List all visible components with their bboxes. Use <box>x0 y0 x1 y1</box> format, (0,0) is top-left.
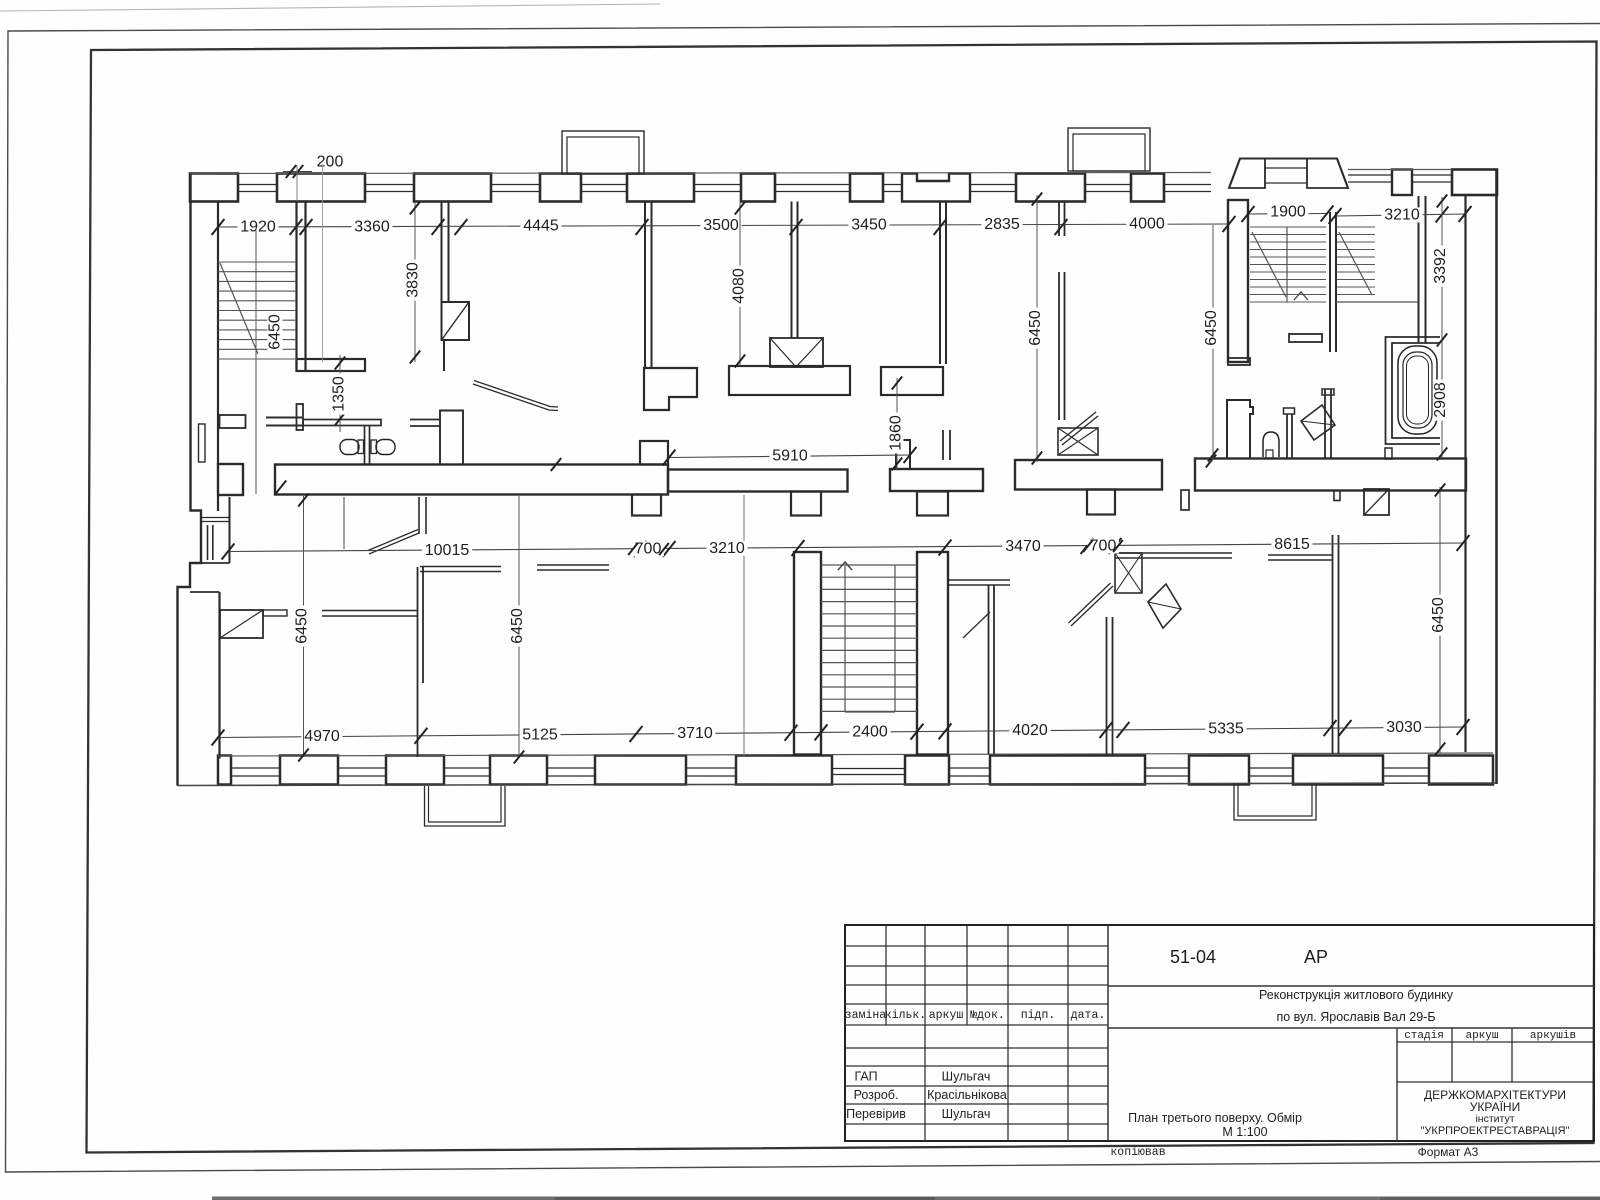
door swing big room (double diagonal) <box>473 384 558 411</box>
right stair treads flight2 <box>1336 226 1375 228</box>
corridor chunk C up-notch <box>896 440 910 469</box>
bottom wall top edge <box>218 753 1493 756</box>
dim 4000 <box>1126 216 1167 231</box>
vdim 4080 <box>731 266 748 307</box>
vdim 6450 rm line <box>1212 225 1214 460</box>
vdim 6450 bl ticks <box>298 494 308 507</box>
dim row1 tick x642 <box>636 219 649 235</box>
dim 3710 <box>674 726 715 741</box>
WC left <box>340 440 359 455</box>
svg-text:Формат А3: Формат А3 <box>1418 1145 1479 1159</box>
vdim 6450 bl <box>294 606 311 647</box>
vdim 6450 bl line <box>303 496 305 757</box>
right stair landing line <box>1336 301 1418 303</box>
room wall x645 (vertical double) <box>644 202 646 369</box>
dim row1 line <box>218 224 1229 227</box>
svg-text:Красільнікова: Красільнікова <box>927 1088 1007 1102</box>
bottom wall window 4 <box>547 767 595 769</box>
corridor chunk D down-notch <box>1087 490 1115 515</box>
svg-text:УКРАЇНИ: УКРАЇНИ <box>1470 1100 1520 1114</box>
svg-text:аркуш: аркуш <box>1465 1030 1498 1042</box>
title table vline x967 <box>966 925 968 1025</box>
title table vline x1068 <box>1067 925 1069 1025</box>
svg-text:№док.: №док. <box>970 1009 1005 1022</box>
dim 3500 <box>700 218 741 233</box>
svg-text:1900: 1900 <box>1270 204 1306 221</box>
svg-text:заміна: заміна <box>845 1009 887 1022</box>
top wall pier 8 <box>1016 174 1085 202</box>
bottom wall entrance threshold <box>832 768 905 770</box>
WC partition 1 <box>1286 414 1288 459</box>
left stair diagonal <box>220 263 258 354</box>
top wall right of bay: window a <box>1348 174 1392 176</box>
wall below flue x441 <box>443 340 445 371</box>
svg-text:5910: 5910 <box>772 448 808 465</box>
bottom wall window 9 <box>1383 767 1429 769</box>
svg-text:4000: 4000 <box>1129 216 1165 233</box>
top wall outer edge line <box>190 173 1211 174</box>
dim row3 tick x636 <box>630 726 643 742</box>
porch right (double line) <box>1234 783 1316 820</box>
door swing bottom mid <box>1071 586 1113 626</box>
corridor wall chunk C <box>890 469 983 491</box>
dim row3 tick x421 <box>415 728 428 744</box>
bottom wall pier 4 <box>490 756 547 785</box>
svg-text:1860: 1860 <box>888 415 905 451</box>
light partition line x744 <box>743 495 745 757</box>
WC right stair <box>1263 432 1279 457</box>
right stairwell right wall <box>1418 196 1420 343</box>
title table hline y1048 <box>845 1047 1108 1049</box>
partition L bottom x990 <box>948 579 1010 581</box>
svg-text:інститут: інститут <box>1475 1113 1514 1125</box>
title table vline x925 <box>924 925 926 1025</box>
svg-text:підп.: підп. <box>1021 1009 1056 1022</box>
svg-text:3470: 3470 <box>1005 538 1041 555</box>
dim row1 tick x306 <box>300 219 313 235</box>
mid stair right wall stub <box>917 492 948 516</box>
vdim 6450 rm ticks <box>1208 449 1218 462</box>
dim row2 tick x1087 <box>1081 538 1094 554</box>
vdim 6450 stair line <box>255 227 257 494</box>
partition x1061 (vertical double) <box>1058 272 1060 420</box>
svg-text:Реконструкція житлового будинк: Реконструкція житлового будинку <box>1259 988 1454 1002</box>
bottom wall pier 6 <box>736 756 832 785</box>
svg-text:51-04: 51-04 <box>1170 947 1216 967</box>
toilet room top wall <box>266 417 302 419</box>
title table hline y1004 <box>845 1003 1108 1005</box>
svg-text:6450: 6450 <box>1430 597 1447 633</box>
top wall window 1 <box>238 184 277 186</box>
dim row2 tick x640 <box>634 541 647 557</box>
svg-text:Шульгач: Шульгач <box>942 1070 991 1084</box>
dim 8615 <box>1271 537 1312 552</box>
stair bay pier right <box>1307 159 1348 189</box>
toilet wall T-stub <box>297 404 304 430</box>
top wall window b <box>1412 174 1452 176</box>
dim row3 tick x1106 <box>1100 722 1113 738</box>
bottom wall pier 5 <box>595 756 686 785</box>
dim row1 tick x218 <box>212 219 225 235</box>
dim 200 ext line <box>296 165 298 201</box>
corridor lower partition a <box>420 566 501 568</box>
wall stair landing bottom <box>297 359 366 371</box>
bathroom niche walls <box>1392 343 1440 438</box>
vdim 1350 line <box>339 355 341 432</box>
dim 3210r ticks <box>1329 208 1342 224</box>
dim 5335 <box>1205 721 1246 736</box>
toilet wall mid <box>303 420 381 426</box>
vdim 3830 line <box>414 203 416 362</box>
flue box x441 <box>442 302 470 340</box>
top wall window 3 <box>491 184 540 186</box>
scanner band darker segment <box>555 1197 935 1200</box>
dim row1 tick x438 <box>432 219 445 235</box>
stub wall above corridor x943 <box>942 430 944 460</box>
dim 5125 <box>519 727 560 742</box>
dim row1 tick x1061 <box>1055 219 1068 235</box>
mid stair landing bottom <box>845 711 895 713</box>
flue bowtie x791 <box>770 338 823 367</box>
mid stair rail right <box>894 565 896 712</box>
svg-text:3710: 3710 <box>677 725 713 742</box>
entrance threshold <box>202 517 229 519</box>
dim 3450 <box>848 217 889 232</box>
dim 3360 <box>351 219 392 234</box>
dim row2 tick x228 <box>222 544 235 560</box>
vdim 6450 stair <box>267 312 284 353</box>
corridor band A corner tick <box>276 481 286 494</box>
top wall window 8 <box>970 184 1016 186</box>
top wall pier 9 <box>1131 174 1164 202</box>
right stair treads flight1 <box>1250 226 1326 228</box>
dim 2835 <box>981 217 1022 232</box>
top wall pier 1 <box>190 174 238 202</box>
dim 4970 <box>301 729 342 744</box>
right stair divider 2 <box>1335 212 1337 352</box>
top wall edge right section <box>1348 169 1452 171</box>
toilet wall right segment <box>410 419 440 421</box>
title table vline x886 <box>885 925 887 1025</box>
title table hline y1086 <box>845 1085 1108 1087</box>
door stub below pier x1061 <box>1058 202 1060 237</box>
dim 3210 <box>706 541 747 556</box>
toilet wall left chunk <box>220 415 246 428</box>
mid stair left wall stub <box>791 492 821 516</box>
WC partition 2 <box>1324 389 1326 459</box>
svg-text:6450: 6450 <box>267 314 284 350</box>
vdim 2908 ticks <box>1437 448 1447 461</box>
svg-text:Шульгач: Шульгач <box>942 1107 991 1121</box>
svg-text:3500: 3500 <box>703 217 739 234</box>
partition bottom-left vertical <box>417 567 419 757</box>
bathtub <box>1398 346 1437 434</box>
toilet partition mid (between WCs) <box>364 426 366 464</box>
dim 3210r line <box>1335 214 1465 216</box>
svg-text:аркуш: аркуш <box>929 1009 964 1022</box>
стадія hline <box>1397 1041 1594 1043</box>
mid stair right wall <box>917 552 948 755</box>
svg-text:2400: 2400 <box>852 724 888 741</box>
vdim 3392 <box>1432 246 1449 287</box>
vdim 2908 <box>1432 380 1449 421</box>
mid stair left wall <box>794 552 821 755</box>
vdim 1350 ticks <box>335 357 345 370</box>
title table vline low x1068 <box>1067 1025 1069 1141</box>
svg-text:4970: 4970 <box>304 728 340 745</box>
diamond flue bottom mid <box>1148 584 1181 628</box>
partition bottom-right vertical <box>1332 535 1334 754</box>
title table vline x1108 <box>1107 925 1109 1141</box>
corridor lower partition b <box>537 564 609 566</box>
dim 200 ext line b <box>322 164 324 362</box>
corridor door swing <box>369 533 419 554</box>
dim 1900 ticks <box>1242 206 1255 222</box>
bay window 2 (double outline) <box>1068 128 1150 171</box>
right section wall below stair <box>1227 400 1253 459</box>
corridor wall right stub <box>1334 491 1340 501</box>
dim row3 tick x1330 <box>1324 720 1337 736</box>
dim 3470 <box>1002 539 1043 554</box>
radiator left wall (rect+diagonal) <box>220 610 263 638</box>
dim row1 tick x296 <box>290 219 303 235</box>
left exterior wall outer <box>178 174 202 786</box>
mid stair treads <box>821 564 917 566</box>
right stair diagonal left <box>1252 232 1286 297</box>
svg-text:"УКРПРОЕКТРЕСТАВРАЦІЯ": "УКРПРОЕКТРЕСТАВРАЦІЯ" <box>1421 1125 1570 1137</box>
vdim 6450 br line <box>1439 487 1441 753</box>
bottom wall pier 9 <box>1189 756 1249 785</box>
dim 5910 <box>769 448 810 463</box>
corridor wall left chunk <box>218 464 243 495</box>
bay window 1 (double outline) <box>562 131 644 174</box>
стадія table vlines <box>1451 1028 1453 1082</box>
svg-text:6450: 6450 <box>294 608 311 644</box>
svg-text:Розроб.: Розроб. <box>854 1088 899 1102</box>
title block outer <box>845 925 1594 1141</box>
vdim 1860 line <box>896 378 898 469</box>
dim 700b slash <box>1083 540 1093 552</box>
dim 3030 <box>1383 720 1424 735</box>
bottom wall window 6 <box>949 767 990 769</box>
svg-text:дата.: дата. <box>1071 1009 1106 1022</box>
dim row1 tick x461 <box>455 219 468 235</box>
corridor junction tick x556 <box>551 458 561 471</box>
corridor flue column up <box>640 441 668 465</box>
title table hline y1124 <box>845 1123 1108 1125</box>
corridor lower partition right b <box>1268 554 1332 556</box>
vdim 6450 bl2 <box>509 606 526 647</box>
corridor lower partition right a <box>1115 552 1232 554</box>
top wall pier 4 <box>540 174 581 202</box>
dim 5910 line <box>669 455 910 458</box>
dim row2 tick x798 <box>792 540 805 556</box>
dim row2 tick x1115 <box>1109 538 1122 554</box>
bottom wall window 5 <box>686 767 736 769</box>
dim row3 tick x945 <box>939 723 952 739</box>
scanner dark band bottom <box>212 1197 1600 1200</box>
title hline y1028 <box>1108 1027 1594 1029</box>
vdim 3830 ticks <box>410 202 420 215</box>
vdim 6450 br <box>1430 595 1447 636</box>
bottom wall window 7 <box>1145 767 1189 769</box>
bottom wall pier 3 <box>386 756 444 785</box>
dim 4445 <box>520 218 561 233</box>
svg-text:4020: 4020 <box>1012 722 1048 739</box>
svg-text:3210: 3210 <box>1384 207 1420 224</box>
top wall pier 2 <box>277 174 365 202</box>
corridor door jamb x1181 <box>1181 490 1189 510</box>
svg-text:3210: 3210 <box>709 540 745 557</box>
svg-text:по вул. Ярославів Вал 29-Б: по вул. Ярославів Вал 29-Б <box>1276 1010 1435 1024</box>
stair bay top wall (trapezoid) <box>1229 159 1348 189</box>
dim 5910 ticks <box>663 450 676 466</box>
bottom wall bottom edge <box>177 783 1497 786</box>
dim 2400 <box>849 724 890 739</box>
dim row3 tick x218 <box>212 730 225 746</box>
corridor wall band A <box>275 465 668 495</box>
dim row3 tick x1463 <box>1457 719 1470 735</box>
entrance recess right wall <box>229 497 231 563</box>
room wall x441 (vertical double) <box>441 202 443 303</box>
dim 200 line <box>283 171 312 173</box>
vdim 4080 line <box>739 203 741 366</box>
left wall inner lower <box>218 592 220 759</box>
left wall window <box>199 424 206 462</box>
bottom wall pier 8 <box>990 756 1145 785</box>
corridor wall right long <box>1195 459 1466 491</box>
title table hline y1104 <box>845 1103 1108 1105</box>
title table vline x1008 <box>1007 925 1009 1025</box>
dim row3 tick x821 <box>815 724 828 740</box>
dim row3 tick x917 <box>911 724 924 740</box>
svg-text:6450: 6450 <box>1027 310 1044 346</box>
dim 700a <box>632 541 664 556</box>
bottom wall window 3 <box>444 767 490 769</box>
duct niche right of toilets <box>440 411 463 465</box>
dim row3 line <box>218 727 1463 738</box>
bottom wall window 8 <box>1249 767 1293 769</box>
bottom wall pier 7 <box>905 756 949 785</box>
dim 1920 <box>237 219 278 234</box>
diamond flue right section <box>1301 405 1335 440</box>
dim row1 tick x1229 <box>1223 216 1236 232</box>
radiator stub bathroom <box>1385 448 1392 459</box>
svg-text:4445: 4445 <box>523 218 559 235</box>
partition bottom-left horizontal <box>322 610 417 612</box>
vdim 6450 bl2 line <box>518 496 520 757</box>
dim row1 tick x940 <box>934 219 947 235</box>
svg-text:аркушів: аркушів <box>1530 1030 1576 1042</box>
top wall pier 5 <box>627 174 694 202</box>
door swing bottom x990 <box>963 612 990 638</box>
svg-text:6450: 6450 <box>509 608 526 644</box>
dim row2 tick x945 <box>939 540 952 556</box>
dim 200 ticks <box>286 165 296 178</box>
top wall window 6 <box>775 184 850 186</box>
dim 700b <box>1087 538 1119 553</box>
dim row1 tick x796 <box>790 219 803 235</box>
bottom wall window 1 <box>231 767 280 769</box>
vdim 6450 bl2 ticks <box>514 751 524 764</box>
page edge (scan, top-left) <box>0 4 660 11</box>
dim row3 tick x1123 <box>1117 722 1130 738</box>
top wall window 5 <box>694 184 741 186</box>
vdim 6450 mid <box>1027 308 1044 349</box>
dim 200 text <box>314 154 346 169</box>
vdim 1860 ticks <box>892 377 902 390</box>
svg-text:5125: 5125 <box>522 726 558 743</box>
top wall window 4 <box>581 184 627 186</box>
corridor flue right (diagonal) <box>1364 489 1389 515</box>
title table vline low x1008 <box>1007 1025 1009 1141</box>
svg-text:1920: 1920 <box>240 219 276 236</box>
svg-text:2835: 2835 <box>984 216 1020 233</box>
svg-text:План третього поверху. Обмір: План третього поверху. Обмір <box>1128 1111 1302 1125</box>
svg-text:3360: 3360 <box>354 219 390 236</box>
vdim 3392 ticks <box>1437 195 1447 208</box>
dim 4020 <box>1009 723 1050 738</box>
bottom wall pier 1 <box>218 756 231 785</box>
svg-text:2908: 2908 <box>1432 382 1449 418</box>
entrance door leaf <box>207 525 209 560</box>
room wall x791 (vertical double) <box>791 202 793 339</box>
svg-text:200: 200 <box>317 154 344 171</box>
dim row3 tick x1345 <box>1339 720 1352 736</box>
left stair treads <box>218 261 297 263</box>
bottom wall window 2 <box>338 767 386 769</box>
WC right <box>376 440 395 455</box>
svg-text:АР: АР <box>1304 947 1328 967</box>
corridor door jamb x420 <box>418 497 420 534</box>
title hline y986 <box>1108 985 1594 987</box>
svg-text:700: 700 <box>635 541 662 558</box>
vdim 1860 <box>888 413 905 454</box>
partition bottom mid vertical <box>1106 617 1108 755</box>
title table hline y1066 <box>845 1065 1108 1067</box>
vdim 3830 <box>405 260 422 301</box>
svg-text:М 1:100: М 1:100 <box>1222 1125 1267 1139</box>
corridor stub line x344 <box>343 497 345 549</box>
svg-text:8615: 8615 <box>1274 536 1310 553</box>
stair bay pier left <box>1229 159 1265 189</box>
title table hline y985 <box>845 984 1108 986</box>
svg-text:6450: 6450 <box>1203 310 1220 346</box>
dim row2 tick x1463 <box>1457 535 1470 551</box>
top wall pier 6 <box>741 174 775 202</box>
dim 700a slash <box>628 543 638 555</box>
stairwell-left wall (vertical) <box>295 202 297 372</box>
svg-text:3392: 3392 <box>1432 248 1449 284</box>
svg-text:4080: 4080 <box>731 268 748 304</box>
right exterior wall <box>1495 170 1498 785</box>
dim 1900 <box>1267 204 1308 219</box>
svg-text:кільк.: кільк. <box>885 1009 926 1022</box>
svg-text:700: 700 <box>1090 538 1117 555</box>
wall chunk right of x940 <box>881 367 943 395</box>
corridor wall band B <box>668 470 848 492</box>
vdim 3392 line <box>1441 197 1443 458</box>
top wall window 10 <box>1164 184 1211 186</box>
vdim 6450 rm <box>1203 308 1220 349</box>
porch left (double line) <box>425 786 506 826</box>
dim row2 tick x669 <box>663 541 676 557</box>
flue bowtie bottom mid <box>1115 553 1142 593</box>
svg-text:1350: 1350 <box>331 376 348 412</box>
top wall window 2 <box>365 184 414 186</box>
title table vline low x925 <box>924 1025 926 1141</box>
left exterior wall inner <box>217 202 219 465</box>
